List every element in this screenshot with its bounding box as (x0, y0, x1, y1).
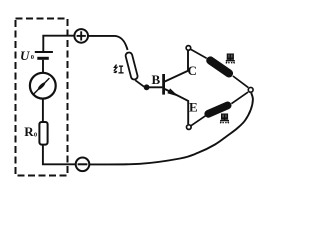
plus terminal circle (74, 29, 88, 43)
resistor R0 body (39, 122, 47, 145)
wire: emitter circle to bottom black probe (191, 116, 205, 126)
probe tip to junction dot (135, 80, 144, 87)
svg-text:R: R (24, 124, 34, 139)
label hong (red) (114, 65, 124, 74)
battery cell: long plate (35, 51, 53, 53)
meter (galvanometer) circle (30, 73, 56, 99)
wire: bottom probe to junction (231, 92, 248, 104)
wire: collector circle to top black probe (191, 49, 207, 58)
emitter lead (165, 89, 188, 124)
big return wire: minus terminal to junction (89, 93, 253, 165)
minus terminal circle (76, 158, 90, 172)
wire: meter to resistor R0 (42, 99, 44, 123)
svg-text:0: 0 (31, 54, 34, 61)
wire: battery to meter (42, 60, 44, 73)
emitter terminal circle (187, 125, 192, 130)
label hei (black) bottom (220, 114, 229, 123)
collector lead (165, 50, 188, 81)
battery cell: short thick plate (37, 57, 49, 60)
red probe body (hollow) (125, 52, 138, 80)
emitter arrow (167, 88, 179, 96)
wire: top probe to junction (233, 76, 248, 88)
top black probe body (210, 61, 229, 74)
junction dot at base wire (144, 84, 150, 90)
svg-text:E: E (189, 100, 198, 115)
label hei (black) top (226, 54, 235, 63)
svg-text:U: U (20, 48, 30, 63)
wire: battery top riser to plus terminal (43, 36, 73, 52)
svg-text:B: B (152, 72, 161, 87)
wire: plus terminal to red probe (88, 36, 127, 50)
collector terminal circle (186, 46, 191, 51)
svg-text:0: 0 (34, 132, 37, 139)
wire: resistor to minus terminal (43, 145, 76, 165)
junction node circle (probes meet) (248, 87, 253, 92)
wire: dot to base (149, 86, 162, 88)
svg-text:C: C (188, 63, 197, 78)
dashed multimeter box (16, 19, 68, 176)
bottom black probe body (208, 105, 227, 113)
transistor base bar (162, 74, 165, 95)
meter needle (34, 78, 50, 94)
